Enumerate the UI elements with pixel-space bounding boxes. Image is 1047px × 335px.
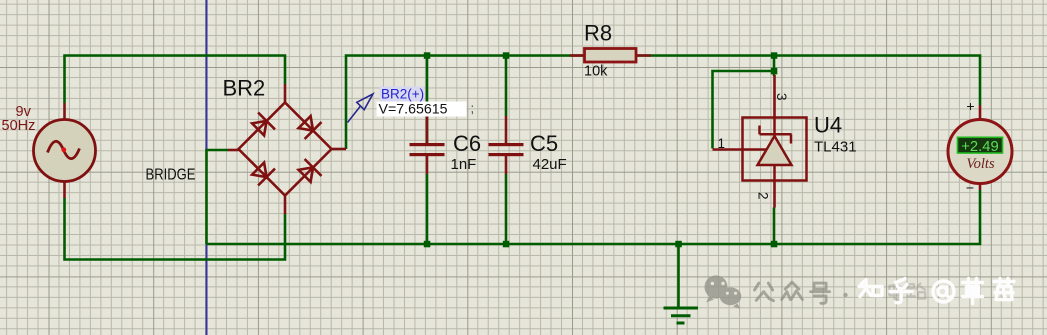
svg-text:;: ; — [471, 101, 475, 116]
svg-text:2: 2 — [756, 192, 771, 200]
svg-text:C5: C5 — [530, 131, 558, 156]
svg-text:+2.49: +2.49 — [961, 139, 998, 155]
svg-text:+: + — [966, 98, 974, 114]
svg-text:TL431: TL431 — [814, 139, 857, 156]
svg-text:42uF: 42uF — [533, 156, 567, 173]
svg-text:V=7.65615: V=7.65615 — [379, 102, 448, 118]
svg-text:BRIDGE: BRIDGE — [146, 167, 196, 184]
svg-text:50Hz: 50Hz — [2, 118, 36, 134]
svg-text:−: − — [966, 180, 974, 196]
svg-text:C6: C6 — [453, 131, 481, 156]
svg-text:10k: 10k — [584, 64, 608, 80]
svg-text:1: 1 — [718, 136, 726, 151]
svg-text:3: 3 — [774, 93, 789, 101]
svg-text:R8: R8 — [584, 21, 612, 46]
svg-text:1nF: 1nF — [451, 156, 477, 173]
svg-text:BR2: BR2 — [223, 76, 266, 101]
svg-text:BR2(+): BR2(+) — [381, 87, 424, 102]
svg-text:Volts: Volts — [966, 156, 995, 172]
svg-text:U4: U4 — [814, 113, 842, 138]
